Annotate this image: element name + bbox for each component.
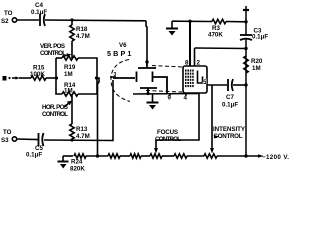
- svg-text:S3: S3: [1, 137, 9, 144]
- capacitor C4: [31, 2, 47, 26]
- resistor chain c: [174, 154, 187, 158]
- resistor chain b: [130, 154, 141, 158]
- ground CRT: [147, 94, 159, 110]
- svg-text:470K: 470K: [208, 32, 223, 39]
- ground top: [166, 21, 178, 35]
- svg-text:1M: 1M: [64, 71, 73, 78]
- svg-text:4.7M: 4.7M: [76, 133, 90, 140]
- wire: [120, 155, 130, 157]
- wire: [187, 155, 204, 157]
- wire: [86, 155, 108, 157]
- svg-text:R24: R24: [71, 159, 83, 166]
- svg-text:0.1μF: 0.1μF: [26, 152, 42, 159]
- svg-text:C4: C4: [35, 2, 43, 9]
- label FOCUS CONTROL: [155, 129, 181, 143]
- svg-text:1M: 1M: [252, 65, 261, 72]
- gun grid dots: [185, 70, 194, 88]
- svg-text:R19: R19: [64, 64, 76, 71]
- svg-text:9: 9: [168, 95, 172, 102]
- node pin 6: [145, 60, 148, 63]
- node rail y48: [244, 47, 247, 50]
- focus arrowhead: [154, 148, 158, 154]
- label -1200V: [258, 154, 289, 161]
- node thick line top: [188, 20, 191, 23]
- node rail R3: [244, 20, 247, 23]
- HV rail: [245, 6, 247, 156]
- resistor intensity pot: [204, 154, 217, 158]
- node R13 bottom: [70, 138, 73, 141]
- node chain pos: [96, 154, 99, 157]
- wire C7 to rail: [233, 84, 246, 86]
- svg-text:VER. POS: VER. POS: [40, 43, 65, 50]
- pin 8 wire: [189, 21, 191, 66]
- gun electrode hook: [198, 71, 203, 84]
- svg-text:R18: R18: [76, 26, 88, 33]
- node junction: [70, 18, 73, 21]
- deflection plate H right: [153, 72, 168, 94]
- resistor R15: [19, 65, 56, 81]
- pin 3 tick: [110, 76, 116, 78]
- wire: [141, 155, 150, 157]
- ground bottom left: [58, 156, 69, 169]
- svg-text:TO: TO: [3, 129, 12, 136]
- terminal input left: [3, 76, 20, 81]
- wire: [17, 138, 38, 141]
- svg-text:100K: 100K: [30, 71, 45, 78]
- node plate join: [146, 92, 149, 95]
- pin 5 wire: [207, 84, 227, 86]
- resistor R13: [70, 94, 90, 140]
- node rail bottom: [244, 154, 247, 157]
- svg-text:R13: R13: [76, 126, 88, 133]
- wire: [217, 155, 259, 157]
- label V6 5BP1: [107, 42, 132, 58]
- svg-text:8: 8: [185, 60, 189, 67]
- capacitor C5: [26, 133, 44, 159]
- svg-text:−1200 V.: −1200 V.: [262, 154, 289, 161]
- svg-text:5: 5: [203, 79, 207, 86]
- node box right: [95, 76, 98, 79]
- svg-text:CONTROL: CONTROL: [155, 136, 181, 143]
- svg-text:C7: C7: [226, 94, 234, 101]
- CRT envelope: [111, 60, 182, 102]
- label INTENSITY CONTROL: [213, 126, 246, 140]
- pin 4: [184, 94, 188, 102]
- wire: [172, 20, 212, 22]
- svg-text:INTENSITY: INTENSITY: [213, 126, 246, 133]
- label HOR POS CONTROL: [42, 101, 73, 119]
- terminal TO S2: [1, 10, 17, 25]
- svg-text:V6: V6: [119, 42, 127, 49]
- deflection plate V lower: [140, 88, 157, 94]
- svg-text:4: 4: [184, 95, 188, 102]
- potentiometer box R19 R14: [56, 56, 97, 96]
- wire top feed pin: [146, 21, 147, 62]
- svg-text:TO: TO: [4, 10, 13, 17]
- intensity arrowhead: [210, 148, 214, 154]
- pin 9: [168, 94, 172, 102]
- resistor chain a: [108, 154, 120, 158]
- svg-text:1M: 1M: [64, 88, 73, 95]
- wire: [162, 155, 174, 157]
- resistor R3: [208, 19, 246, 38]
- svg-text:4.7M: 4.7M: [76, 33, 90, 40]
- capacitor C7: [222, 79, 238, 109]
- resistor R18: [70, 20, 90, 58]
- svg-text:820K: 820K: [70, 166, 85, 173]
- svg-text:5BP1: 5BP1: [107, 49, 132, 58]
- svg-text:0.1μF: 0.1μF: [222, 102, 238, 109]
- terminal TO S3: [1, 129, 17, 144]
- resistor R24: [63, 154, 86, 173]
- wire pin2 to rail: [195, 47, 247, 50]
- capacitor C3: [240, 28, 268, 41]
- svg-text:0.1μF: 0.1μF: [252, 34, 268, 41]
- gun box: [183, 66, 207, 93]
- rail top tick: [243, 9, 249, 11]
- resistor focus pot: [150, 154, 162, 158]
- wire S3 line to plate: [44, 80, 113, 141]
- wire: [17, 19, 39, 21]
- deflection plate V upper: [138, 62, 156, 68]
- wire focus feed: [156, 94, 199, 150]
- svg-text:R20: R20: [251, 58, 263, 65]
- node box left: [55, 76, 58, 79]
- svg-text:FOCUS: FOCUS: [157, 129, 178, 136]
- svg-text:HOR. POS: HOR. POS: [42, 104, 68, 111]
- svg-text:2: 2: [197, 60, 201, 67]
- svg-text:S2: S2: [1, 18, 9, 25]
- svg-text:CONTROL: CONTROL: [42, 111, 68, 118]
- wire: [45, 19, 146, 22]
- deflection plate H left: [113, 72, 137, 83]
- wire gun pins line: [133, 93, 199, 96]
- node rail C7: [244, 83, 247, 86]
- pin 2 wire: [194, 48, 196, 66]
- label VER POS CONTROL: [40, 43, 72, 57]
- wire pot to bottom rail: [97, 78, 99, 156]
- wire intensity drop: [211, 85, 213, 149]
- resistor R20: [244, 56, 263, 73]
